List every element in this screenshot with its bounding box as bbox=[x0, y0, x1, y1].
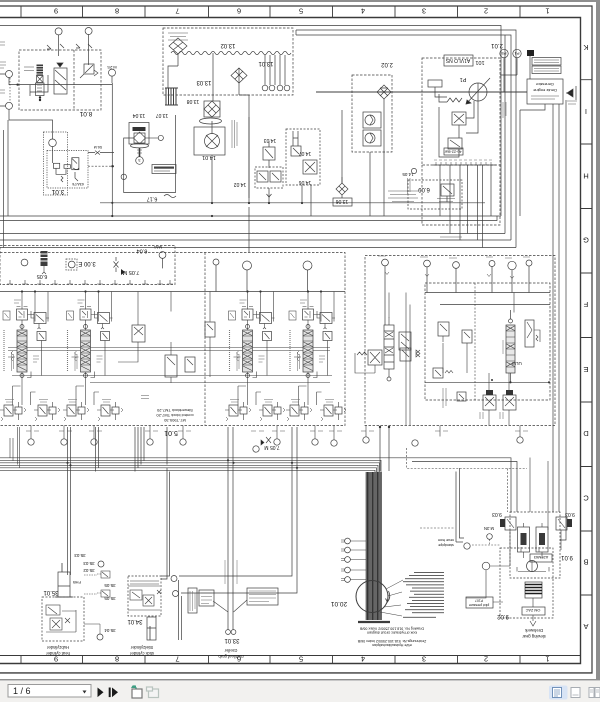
valve block 3.01 outer dotted box bbox=[44, 132, 68, 195]
port circle att4 bbox=[489, 261, 495, 293]
attachment inner dashed box bbox=[425, 283, 550, 400]
oil cooler fan 14.01 bbox=[200, 118, 222, 149]
port circle LM1 bbox=[213, 259, 219, 292]
hub valve internals bbox=[46, 605, 76, 632]
valve section LS2 pilots bbox=[63, 400, 89, 422]
svg-text:35.04: 35.04 bbox=[104, 628, 116, 633]
cartridge valve 9.01 a bbox=[518, 523, 530, 558]
label Druckschalter pressure switch bbox=[388, 191, 418, 202]
wire pump drains bbox=[370, 99, 460, 240]
continuous view button bbox=[571, 688, 580, 698]
attachment divider dashed bbox=[474, 283, 476, 400]
top bus wire inner bbox=[296, 35, 511, 240]
svg-text:9.03: 9.03 bbox=[492, 511, 502, 517]
junction dots supply rail bbox=[21, 290, 322, 348]
svg-text:eWe Hydraulikschaltplan: eWe Hydraulikschaltplan bbox=[372, 643, 411, 647]
port circle a (top of 8.01) bbox=[55, 28, 62, 56]
tiny label speckles sections bbox=[12, 300, 326, 371]
return bus line r1 bbox=[0, 458, 511, 512]
filler cap text (flow 0-STS HV) bbox=[168, 33, 188, 40]
port circle b (top of 8.01) bbox=[85, 28, 92, 66]
label 55 bar bbox=[141, 396, 149, 399]
svg-text:6.17: 6.17 bbox=[147, 196, 158, 202]
hub cylinder labels right bbox=[83, 561, 116, 633]
valve 14.03 bbox=[263, 141, 275, 168]
solenoid W valve mid bbox=[355, 350, 382, 373]
wire 13.01 drops bbox=[265, 55, 285, 85]
wire loop 13.04 bbox=[124, 115, 176, 193]
shutoff valve S6.M bbox=[88, 145, 114, 155]
accumulator 3.01 bbox=[53, 163, 70, 174]
svg-text:2.02: 2.02 bbox=[381, 61, 393, 67]
inter-section rail b bbox=[8, 350, 330, 352]
svg-text:Deutz engine: Deutz engine bbox=[532, 88, 556, 93]
pump unit 13.04 block bbox=[129, 123, 149, 145]
tick row 6.05 strip bbox=[7, 280, 173, 284]
harness port circles bbox=[341, 538, 366, 582]
engine shaft arrow bbox=[566, 86, 577, 104]
valve section LS3 pilots bbox=[225, 400, 251, 422]
attachment rail c bbox=[425, 381, 550, 383]
wires inside 101 bbox=[435, 87, 478, 157]
export all icon (disabled) bbox=[147, 687, 159, 698]
valve section ATT1 bbox=[384, 317, 411, 381]
valve block 8.01 dashed enclosure bbox=[19, 50, 101, 110]
wire sec3 supply bbox=[248, 117, 250, 252]
attachment rail b bbox=[440, 304, 550, 306]
svg-text:multileaf grab: multileaf grab bbox=[218, 654, 244, 659]
gauge circle 3.01 bbox=[49, 139, 57, 163]
svg-text:6.05: 6.05 bbox=[37, 273, 48, 279]
label Stielzylinder bbox=[129, 645, 154, 656]
spool 8.01 striped bbox=[36, 65, 45, 102]
small info box left of grab bbox=[188, 588, 197, 613]
valve section LS1 pilots bbox=[0, 400, 26, 422]
svg-text:7.05 M: 7.05 M bbox=[264, 444, 279, 450]
hub pilot valves 35.05 bbox=[84, 571, 110, 597]
label 13.06 bbox=[333, 198, 352, 206]
port circle att1 bbox=[382, 259, 389, 325]
svg-text:3: 3 bbox=[138, 158, 141, 163]
svg-text:35.03: 35.03 bbox=[83, 561, 95, 566]
port circle att5 bbox=[508, 261, 516, 292]
svg-text:M.3N: M.3N bbox=[484, 526, 494, 531]
bus junction dots bbox=[66, 215, 298, 469]
svg-text:M7-T905-30: M7-T905-30 bbox=[163, 418, 186, 423]
attachment circle labels bbox=[378, 256, 530, 354]
grab info box right bbox=[247, 588, 278, 605]
inter-section rail d bbox=[90, 382, 330, 384]
dashed pilot line from 3.01 bbox=[88, 165, 114, 167]
return bus line r5 bbox=[0, 468, 377, 472]
wire bundle block drains bbox=[135, 427, 144, 472]
svg-text:P1: P1 bbox=[460, 76, 467, 82]
inter-section rail a bbox=[8, 347, 330, 349]
valve section LS1 pilot b bbox=[34, 400, 60, 422]
svg-text:P5: P5 bbox=[501, 51, 507, 56]
swing motor circle bbox=[517, 561, 549, 572]
grid letters right column bbox=[583, 43, 589, 631]
legend leader lines bbox=[380, 580, 403, 616]
label 20HV vertical bbox=[408, 178, 411, 194]
svg-text:13.01: 13.01 bbox=[258, 60, 274, 66]
port circle P left bbox=[6, 71, 13, 78]
stick valve internals bbox=[128, 586, 161, 610]
tank breather line 13.02 area dashed box bbox=[163, 28, 293, 95]
gauge circle P5 bbox=[500, 49, 508, 92]
svg-text:P4: P4 bbox=[514, 51, 520, 56]
swing wires bbox=[466, 530, 561, 626]
junction dots suction line bbox=[211, 202, 303, 204]
svg-text:14.03: 14.03 bbox=[264, 137, 277, 143]
svg-text:20.01: 20.01 bbox=[330, 600, 347, 607]
return filter 13.01 bbox=[231, 60, 274, 83]
label Greifer grab bbox=[218, 648, 244, 659]
valve section LS3 bbox=[229, 307, 275, 406]
wire pair stick rod bbox=[179, 427, 298, 640]
right side long drop b bbox=[558, 104, 560, 512]
svg-text:9.03: 9.03 bbox=[565, 511, 575, 517]
grid digits bottom row bbox=[54, 655, 550, 664]
port circle T left bbox=[6, 102, 13, 109]
propeller circle 3 bbox=[136, 157, 144, 165]
solenoid 9.03 right bbox=[556, 511, 575, 530]
svg-text:OM ZAC: OM ZAC bbox=[525, 608, 540, 612]
text column Luefter-Kuehler bbox=[232, 120, 237, 148]
control valve 101 a bbox=[452, 112, 466, 125]
stick marker circles bbox=[171, 576, 179, 597]
svg-text:6.09: 6.09 bbox=[418, 186, 430, 192]
control block 5.01 dashed enclosure bbox=[0, 253, 345, 426]
label box ATVLONS 101 bbox=[444, 55, 485, 66]
bus vertical x505 bbox=[504, 35, 506, 234]
port stubs below block bbox=[31, 426, 520, 440]
svg-text:34.01: 34.01 bbox=[127, 618, 143, 624]
attachment stem chevrons bbox=[385, 272, 514, 279]
gauge circle on loop bbox=[121, 174, 126, 179]
directional valve 8.01 bbox=[54, 63, 67, 94]
stick cylinder barrel bbox=[147, 617, 156, 640]
swing block risers bbox=[530, 458, 548, 531]
page number combo box bbox=[8, 685, 91, 698]
svg-text:Zeichnungs-Nr. 918.100.2500/2: Zeichnungs-Nr. 918.100.2500/2 Index 06/B bbox=[357, 639, 426, 643]
svg-text:5.01: 5.01 bbox=[164, 429, 178, 436]
wire pair pilot standpipe bbox=[379, 426, 390, 471]
wire pair grab bbox=[228, 427, 233, 630]
grab leader diagonals bbox=[213, 600, 247, 612]
valve section LS3 pilot b bbox=[259, 400, 285, 422]
throttle below block bbox=[261, 437, 271, 445]
label Steuerblock TM7-20 bbox=[156, 408, 194, 423]
pump block 2.02 dashed bbox=[352, 75, 392, 152]
svg-text:13.04: 13.04 bbox=[133, 112, 146, 118]
stick cylinder 34.01 dashed box bbox=[128, 576, 161, 616]
pdf viewer toolbar bbox=[0, 680, 600, 702]
label 14.05 bbox=[402, 168, 417, 177]
svg-text:3.01: 3.01 bbox=[51, 188, 64, 195]
pilot pressure label box bbox=[466, 597, 493, 608]
heat exchanger 13.08 comb bbox=[165, 88, 199, 105]
wire engine drop bbox=[520, 104, 545, 216]
right side long drop a bbox=[552, 104, 554, 512]
wire 8.01 to 3.01 bbox=[9, 109, 53, 139]
tank surface wavy line bbox=[171, 51, 291, 54]
svg-text:9.02: 9.02 bbox=[497, 613, 509, 619]
svg-text:14.01: 14.01 bbox=[202, 154, 216, 160]
wire pair hub rod bbox=[96, 427, 99, 472]
throttle 7.05 bbox=[114, 257, 140, 275]
solenoid 9.03 left bbox=[492, 511, 516, 530]
control valve 101 b bbox=[448, 138, 462, 149]
gear pump 2.02 lower bbox=[363, 130, 381, 146]
svg-text:35.05: 35.05 bbox=[104, 583, 116, 588]
pump P1 circle bbox=[466, 78, 490, 104]
rotary union circle 20.01 bbox=[356, 581, 390, 613]
svg-text:13.02: 13.02 bbox=[220, 42, 236, 48]
small check symbols above 8.01 bbox=[47, 44, 92, 49]
labels inside 8.01 bbox=[24, 67, 34, 71]
supply rail y291 bbox=[0, 291, 345, 293]
drive shaft line bbox=[316, 91, 527, 93]
pressure valve 3.01 bbox=[72, 158, 79, 170]
label G-20-309 vertical bbox=[503, 102, 506, 118]
wire 13.06 up bbox=[341, 110, 343, 183]
small valve attachment mid bbox=[457, 392, 466, 401]
mid aux relief a bbox=[165, 355, 177, 383]
gauge circle 9.02 bbox=[482, 562, 510, 570]
svg-text:8.01: 8.01 bbox=[79, 110, 92, 117]
hub cylinder barrel bbox=[55, 563, 81, 597]
port circles under tank bbox=[262, 85, 290, 91]
svg-text:13.03: 13.03 bbox=[196, 79, 212, 85]
port circle M bbox=[243, 261, 252, 292]
svg-text:control block TM7-20: control block TM7-20 bbox=[156, 413, 194, 418]
stem to prop circle bbox=[137, 148, 142, 157]
pump manifold port row bbox=[433, 160, 496, 165]
swing block 9.02 dashed box bbox=[500, 548, 553, 618]
svg-text:Drawing No. 918.100.2500/2 In: Drawing No. 918.100.2500/2 Index 06/B bbox=[359, 626, 424, 630]
pilot dashed bus bbox=[407, 448, 527, 512]
section supply drops bbox=[22, 292, 334, 322]
svg-text:look of hydraulic circuit diag: look of hydraulic circuit diagram bbox=[367, 631, 417, 635]
valve section LS2 bbox=[67, 307, 113, 406]
svg-text:13.06: 13.06 bbox=[336, 198, 349, 204]
port circle att2 bbox=[424, 260, 431, 292]
valve block 3.01 dashed box bbox=[47, 151, 88, 189]
return bus horizontal y247 bbox=[0, 247, 516, 249]
thermo valve block 14.02 bbox=[234, 167, 283, 197]
gauge circle M.2S bbox=[107, 65, 117, 83]
drawing number text bbox=[357, 626, 426, 647]
attachment check valve mid bbox=[400, 348, 420, 361]
svg-text:S6.M: S6.M bbox=[94, 145, 102, 149]
attachment vertical texts bbox=[443, 388, 503, 419]
wire to page edge left bbox=[0, 74, 6, 106]
fan ellipse 13.04 bbox=[131, 144, 149, 148]
return bus line r3 bbox=[0, 463, 380, 472]
engine box Deutz bbox=[527, 79, 563, 104]
return bus horizontal y216 bbox=[0, 215, 501, 217]
grid digits top row bbox=[54, 7, 550, 16]
svg-text:heat cylinder: heat cylinder bbox=[46, 651, 70, 656]
svg-text:Greifer: Greifer bbox=[224, 648, 237, 653]
pilot strip 6.05 dashed bbox=[0, 246, 175, 285]
svg-text:35.02: 35.02 bbox=[83, 568, 95, 573]
solenoid pair M02 b bbox=[503, 390, 516, 418]
svg-text:35.03: 35.03 bbox=[74, 553, 86, 558]
lever zigzag 101 bbox=[439, 94, 462, 102]
label Drehwerk bbox=[522, 628, 546, 639]
valve section LS4 pilots bbox=[286, 400, 312, 422]
wire pair hub cylinder bbox=[68, 427, 71, 575]
pump P2 diamond bbox=[377, 85, 391, 99]
junction block solid bbox=[527, 50, 534, 79]
return bus horizontal y240 bbox=[0, 239, 511, 241]
gearbox OM ZAC bbox=[522, 607, 545, 615]
return bus horizontal y220 bbox=[0, 216, 497, 221]
info label box b bbox=[532, 66, 561, 74]
pilot dashed to standpipe bbox=[420, 468, 500, 549]
svg-text:stick cylinder: stick cylinder bbox=[129, 651, 154, 656]
valve section ATT2 spool bbox=[506, 310, 540, 382]
legend text block bbox=[403, 573, 444, 618]
port circles below block bbox=[28, 437, 523, 452]
return bus line r2 bbox=[0, 460, 517, 512]
valve section LS4 bbox=[289, 307, 335, 406]
port circle N bbox=[303, 261, 312, 292]
wire port line 8.01 bbox=[9, 75, 112, 102]
wire left vertical bus bbox=[4, 120, 9, 248]
two page view button bbox=[589, 688, 600, 698]
svg-text:33.01: 33.01 bbox=[224, 637, 240, 643]
svg-text:35.01: 35.01 bbox=[43, 589, 59, 595]
svg-text:A2FM63: A2FM63 bbox=[534, 555, 548, 559]
cooler drop wires bbox=[212, 117, 311, 216]
left margin tiny labels bbox=[0, 42, 6, 93]
gauge circle P4 bbox=[500, 49, 521, 75]
svg-text:101: 101 bbox=[475, 59, 484, 65]
filter 13.06 bbox=[336, 177, 348, 198]
single page view button (active) bbox=[549, 686, 568, 700]
svg-text:ULM: ULM bbox=[512, 361, 522, 366]
grab info box left bbox=[199, 590, 214, 606]
svg-text:3.00 E: 3.00 E bbox=[78, 260, 95, 266]
wire 13.02 to cooler bbox=[168, 53, 249, 117]
svg-text:Stielzylinder: Stielzylinder bbox=[130, 645, 153, 650]
attachment aux valve bbox=[438, 322, 449, 342]
return bus line r4 bbox=[0, 465, 378, 472]
mid aux relief b bbox=[185, 357, 195, 372]
pump suction line 6.17 bbox=[100, 195, 485, 203]
inter-section rail c bbox=[12, 375, 332, 377]
svg-text:neue from: neue from bbox=[438, 538, 454, 542]
attachment aux valve b bbox=[462, 330, 472, 343]
svg-text:pilot pressure: pilot pressure bbox=[469, 603, 489, 607]
solenoid pair M02 a bbox=[483, 390, 496, 418]
top bus wire mid bbox=[296, 30, 516, 248]
gear pump 2.02 upper bbox=[363, 112, 381, 128]
harness bundle to rotary union bbox=[366, 472, 381, 620]
label G-20-309 bbox=[440, 237, 462, 240]
svg-text:A1VLO NS: A1VLO NS bbox=[445, 57, 470, 63]
attachment block dashed enclosure bbox=[365, 256, 555, 426]
bus port drops left bbox=[10, 427, 20, 468]
port circle att6 bbox=[526, 260, 532, 293]
svg-text:13.07: 13.07 bbox=[156, 112, 169, 118]
hub cylinder 35.01 dashed box bbox=[42, 597, 84, 641]
grab 33.01 end circles bbox=[226, 630, 236, 635]
svg-text:14.06: 14.06 bbox=[299, 179, 312, 185]
svg-text:Generator: Generator bbox=[535, 82, 554, 87]
harness end bar bbox=[358, 621, 390, 623]
svg-text:14.07: 14.07 bbox=[299, 150, 312, 156]
label 4p-22-Bar bbox=[444, 148, 463, 155]
svg-text:MA1: MA1 bbox=[153, 245, 162, 250]
last page button bbox=[109, 688, 118, 698]
breather filter 13.02 bbox=[169, 38, 236, 54]
pilot valve 6.05 bbox=[37, 251, 48, 279]
svg-text:slewing gear: slewing gear bbox=[522, 634, 546, 639]
return bus horizontal y233 bbox=[0, 233, 505, 235]
mid aux wires bbox=[118, 292, 210, 378]
main pump block 101 dashed bbox=[422, 58, 500, 225]
valve section LS4 pilot b bbox=[320, 400, 346, 422]
port circle att3 bbox=[453, 262, 460, 293]
small box 101 top bbox=[428, 80, 442, 87]
svg-text:63A/76: 63A/76 bbox=[72, 182, 83, 186]
svg-text:Drehwerk: Drehwerk bbox=[524, 628, 543, 633]
svg-text:FHB: FHB bbox=[73, 580, 81, 585]
svg-text:P107: P107 bbox=[475, 599, 483, 603]
gauge circle PL41 bbox=[159, 252, 166, 269]
valve section LS2 pilot b bbox=[97, 400, 123, 422]
svg-text:6.04: 6.04 bbox=[137, 248, 148, 254]
svg-text:Hubzylinder: Hubzylinder bbox=[46, 645, 69, 650]
info label box a bbox=[532, 58, 561, 66]
svg-text:9.01: 9.01 bbox=[561, 554, 573, 560]
spring 3.01 bbox=[61, 172, 78, 182]
port tiny labels row bbox=[26, 430, 528, 432]
svg-text:14.02: 14.02 bbox=[234, 181, 247, 187]
gauge circle right of 13.04 bbox=[145, 135, 163, 140]
right side long drop c bbox=[560, 100, 566, 540]
combined label box bbox=[152, 165, 176, 174]
next page button bbox=[98, 688, 104, 698]
svg-text:standpipe: standpipe bbox=[438, 543, 454, 547]
wire pair stick cylinder bbox=[161, 427, 170, 579]
pressure filter 13.03 bbox=[204, 101, 220, 117]
svg-text:M.2S: M.2S bbox=[107, 65, 117, 70]
mid aux shuttle box bbox=[132, 325, 145, 342]
wire M2S drop bbox=[111, 83, 113, 216]
gauge circle 3.00E bbox=[21, 259, 96, 270]
solenoid W valve attachment bbox=[433, 368, 453, 378]
export page icon bbox=[131, 686, 142, 699]
valve section LS1 bbox=[3, 307, 49, 406]
cooler bypass block 14.06 bbox=[286, 129, 320, 185]
motor box ASTMA3 bbox=[530, 554, 552, 562]
cartridge valve 9.01 b bbox=[536, 523, 548, 558]
manifold down wires bbox=[468, 165, 492, 248]
motor box 14.01 bbox=[194, 127, 225, 160]
label Hubzylinder bbox=[46, 645, 70, 656]
hub marker circles bbox=[84, 561, 104, 640]
grab wire labels vertical bbox=[225, 560, 237, 584]
brake stack bbox=[525, 582, 542, 598]
attachment wires bbox=[389, 293, 514, 426]
swing gear 9.01 dashed box bbox=[510, 512, 560, 578]
top bus wire outer bbox=[0, 26, 501, 217]
